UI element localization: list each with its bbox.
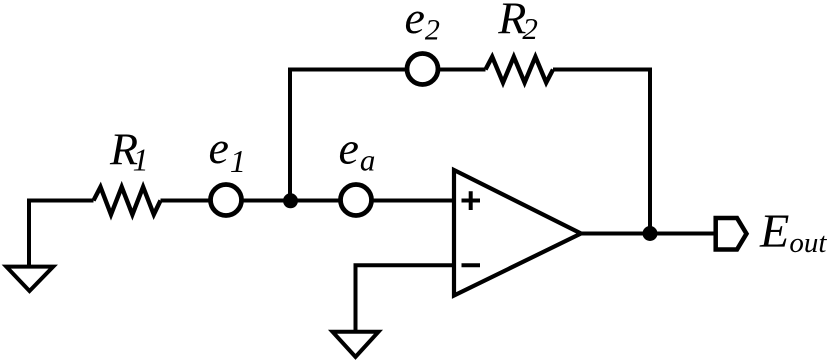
noise source e2 bbox=[407, 54, 438, 85]
node: output junction bbox=[643, 226, 658, 241]
wire: - input to ground bbox=[356, 265, 455, 331]
wire: e2 to R2 bbox=[440, 68, 486, 72]
wire: ea to op-amp + input bbox=[373, 199, 454, 203]
svg-text:e2: e2 bbox=[405, 0, 440, 47]
wire: summing node to ea bbox=[290, 199, 339, 203]
wire: e1 to summing node bbox=[243, 199, 290, 203]
svg-text:e1: e1 bbox=[209, 122, 246, 179]
noise source e1 bbox=[211, 185, 242, 216]
wire: R1 to e1 bbox=[161, 199, 210, 203]
op-amp + input marker bbox=[462, 191, 481, 210]
ground (left, input) bbox=[6, 267, 53, 291]
wire: R2 to output branch bbox=[553, 70, 650, 234]
svg-text:R1: R1 bbox=[109, 124, 149, 178]
resistor R1 bbox=[94, 187, 161, 215]
wire: left ground riser bbox=[29, 201, 94, 267]
ground (op-amp - input) bbox=[333, 332, 379, 357]
op-amp - input marker bbox=[462, 263, 481, 267]
wire: feedback riser from summing node bbox=[290, 70, 405, 201]
resistor R2 bbox=[486, 57, 554, 83]
node: summing junction bbox=[283, 193, 298, 208]
noise source ea bbox=[341, 185, 372, 216]
svg-text:Eout: Eout bbox=[759, 205, 827, 259]
svg-text:ea: ea bbox=[339, 123, 376, 178]
wire: op-amp output bbox=[581, 232, 716, 236]
svg-text:R2: R2 bbox=[497, 0, 538, 46]
op-amp U1 bbox=[454, 170, 581, 296]
output terminal Eout bbox=[716, 218, 747, 250]
